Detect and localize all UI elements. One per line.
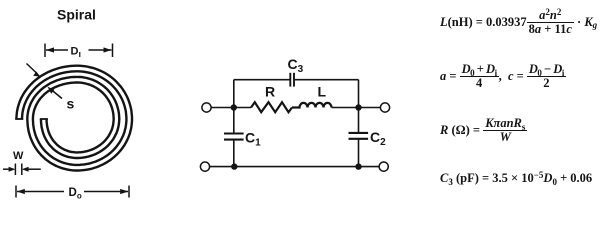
svg-text:s: s [67,95,75,111]
svg-text:C3: C3 [288,56,304,75]
svg-text:W: W [13,150,24,162]
svg-text:L: L [318,83,327,99]
svg-text:R: R [265,83,275,99]
svg-text:C1: C1 [245,129,261,148]
svg-text:C2: C2 [370,129,386,148]
svg-text:Dı: Dı [71,46,81,60]
svg-text:Spiral: Spiral [57,6,96,22]
svg-text:Do: Do [69,187,82,201]
